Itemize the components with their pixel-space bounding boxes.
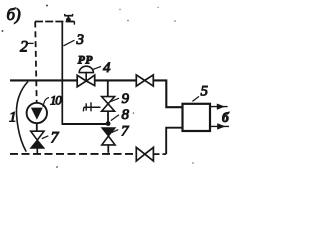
- wire: check valve to bottom line: [107, 145, 109, 153]
- scan speck: [174, 20, 176, 22]
- heat exchanger 5: [183, 104, 211, 131]
- wire: return line valve to riser: [154, 153, 167, 155]
- svg-text:9: 9: [122, 91, 130, 107]
- pump 10: [27, 103, 47, 123]
- svg-text:10: 10: [50, 93, 62, 108]
- wire: main supply line: [10, 79, 77, 81]
- bottom valve on return line: [136, 147, 153, 161]
- svg-text:РР: РР: [78, 54, 94, 66]
- wire: check valve to bottom line: [36, 148, 38, 153]
- leader for label 5: [192, 96, 199, 101]
- capped drain stub: [83, 102, 100, 111]
- wire: bottom return dashed line: [10, 153, 136, 155]
- wire: pump to check valve: [36, 123, 38, 131]
- wire: top circulation dashed line: [35, 21, 75, 23]
- wire: line 3 horizontal to node 8: [62, 123, 107, 125]
- svg-text:б): б): [7, 5, 22, 24]
- svg-text:7: 7: [51, 130, 60, 147]
- leader for left label 7: [42, 136, 49, 139]
- svg-text:4: 4: [103, 60, 111, 76]
- leader for label 10: [43, 98, 49, 107]
- svg-text:1: 1: [9, 110, 17, 126]
- svg-text:8: 8: [122, 107, 130, 123]
- leader for label 3: [64, 40, 75, 46]
- wire: riser to heat exchanger bottom port: [166, 128, 182, 154]
- leader for middle label 7: [112, 130, 119, 133]
- bypass valve on main line: [136, 75, 153, 86]
- scan speck: [56, 166, 58, 168]
- svg-text:5: 5: [201, 84, 209, 100]
- outlet arrow top: [210, 104, 228, 110]
- wire: riser 3 vertical: [61, 22, 63, 125]
- check valve 7 (middle): [102, 128, 115, 145]
- leader for label 8: [111, 115, 119, 121]
- scan speck: [2, 30, 4, 32]
- wire: tick at right end of top line: [71, 22, 75, 25]
- outlet arrow bottom: [210, 123, 229, 129]
- control valve 4 with PP regulator: [77, 66, 95, 87]
- check valve 7 (left): [31, 131, 44, 148]
- svg-text:7: 7: [121, 124, 130, 140]
- air tap on top line: [64, 14, 73, 22]
- scan speck: [157, 7, 158, 8]
- scan speck: [127, 20, 129, 22]
- scan speck: [119, 9, 120, 10]
- wire: branch to valve 9: [107, 80, 109, 96]
- node 8 junction dot: [106, 121, 111, 126]
- svg-text:2: 2: [20, 39, 28, 56]
- scan speck: [46, 5, 48, 7]
- wire: dashed riser 2 down to pump: [35, 22, 37, 104]
- scan speck: [192, 162, 194, 164]
- valve 9 gate valve: [102, 97, 115, 112]
- leader for label 2: [28, 42, 34, 44]
- leader for label 4: [93, 66, 101, 69]
- wire: between valve 9 and node 8: [107, 111, 109, 121]
- svg-text:б: б: [222, 110, 230, 125]
- boundary curve 1: [16, 82, 28, 152]
- leader for label 9: [111, 98, 119, 101]
- scan speck: [133, 112, 135, 114]
- svg-text:3: 3: [76, 32, 85, 48]
